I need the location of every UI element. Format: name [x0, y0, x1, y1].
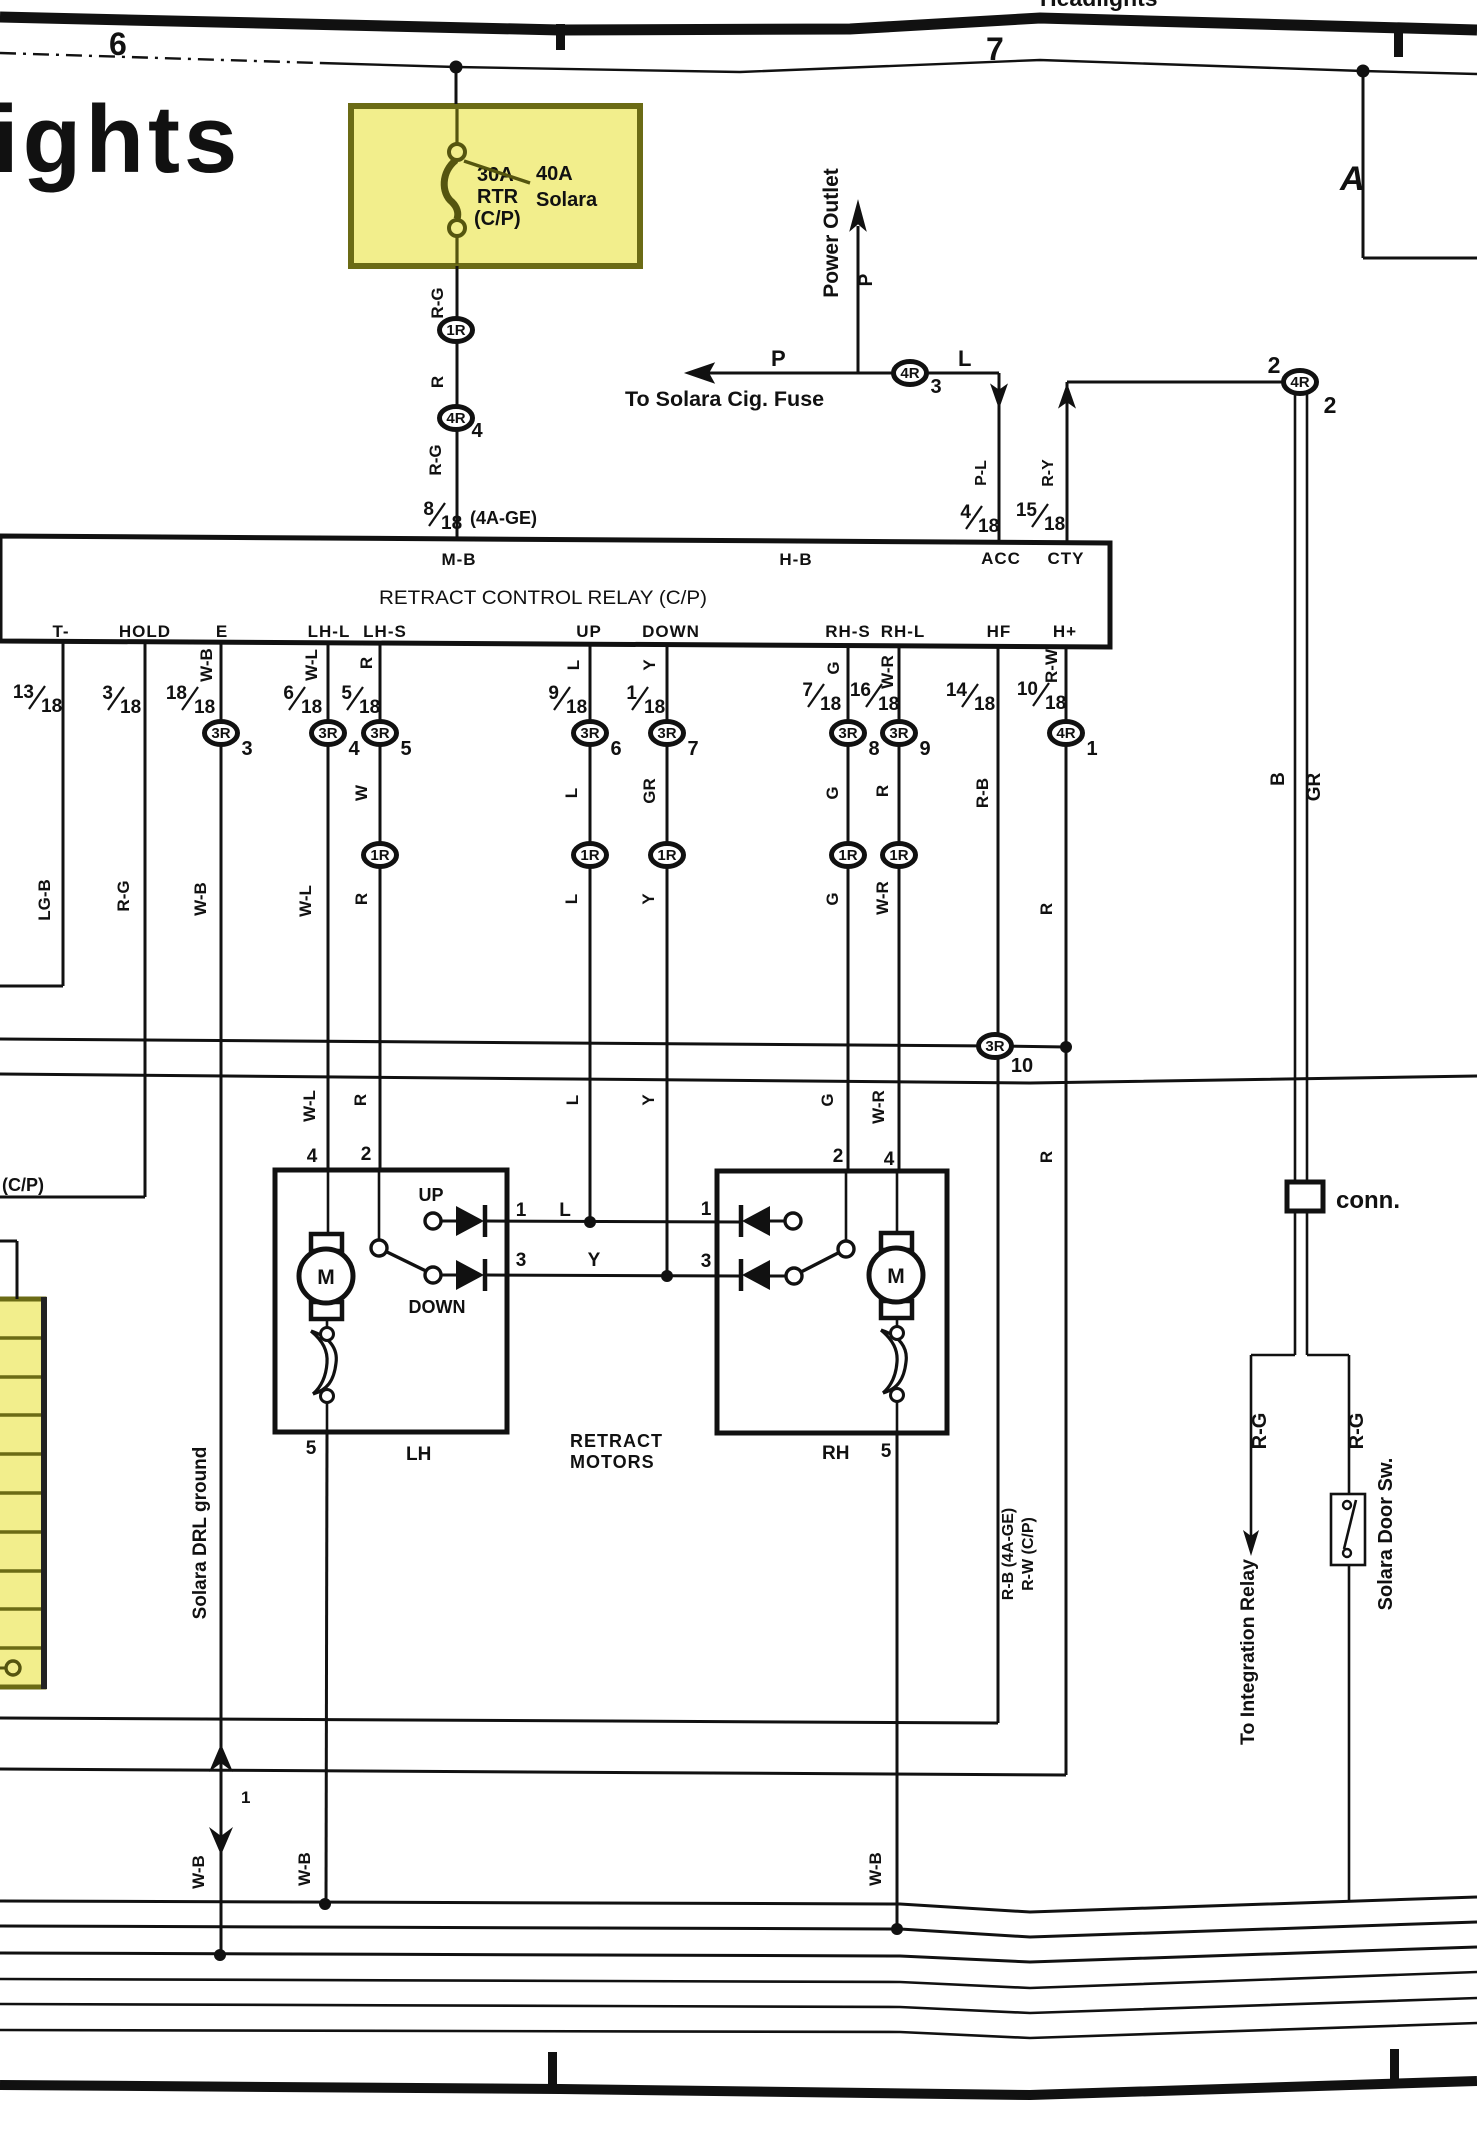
svg-text:DOWN: DOWN	[642, 622, 700, 641]
svg-text:1: 1	[701, 1199, 712, 1220]
svg-text:L: L	[562, 788, 581, 798]
svg-text:P: P	[771, 346, 786, 371]
svg-text:Y: Y	[588, 1250, 601, 1271]
svg-text:L: L	[559, 1200, 571, 1221]
wire W-L from LH-L	[327, 643, 330, 1172]
off-page arrow down (1)	[209, 1827, 233, 1855]
svg-text:W-R: W-R	[878, 655, 897, 689]
svg-text:RH: RH	[822, 1443, 849, 1464]
svg-text:(C/P): (C/P)	[474, 208, 521, 230]
svg-text:1R: 1R	[838, 847, 857, 864]
motor M (LH)	[299, 1234, 353, 1319]
wire R from LH-S	[379, 643, 382, 1172]
connector conn.	[1287, 1182, 1323, 1211]
svg-text:Power Outlet: Power Outlet	[820, 168, 843, 298]
wire Y from DOWN	[666, 643, 669, 1276]
svg-text:1: 1	[1086, 738, 1097, 760]
svg-text:4R: 4R	[900, 365, 919, 382]
node: fuse feed junction	[450, 61, 463, 74]
svg-text:9: 9	[919, 738, 930, 760]
connector 1R	[364, 844, 397, 867]
wire motor lead (LH pin4)	[327, 1172, 330, 1234]
svg-text:M: M	[317, 1266, 335, 1289]
svg-text:R-G: R-G	[1346, 1413, 1368, 1450]
svg-text:(C/P): (C/P)	[2, 1175, 44, 1195]
wire: ground bus 1	[0, 1897, 1477, 1912]
connector 3R	[883, 722, 931, 761]
ground terminal	[0, 1667, 6, 1670]
wire: H+ return bus	[0, 1769, 1066, 1775]
svg-text:4R: 4R	[1290, 374, 1309, 391]
svg-text:Y: Y	[640, 659, 659, 671]
svg-text:Y: Y	[639, 1094, 658, 1106]
svg-text:LH: LH	[406, 1444, 431, 1465]
connector 3R	[364, 722, 412, 761]
svg-text:R: R	[873, 785, 892, 797]
svg-text:W-L: W-L	[296, 885, 315, 917]
svg-text:R-G: R-G	[114, 880, 133, 911]
svg-text:6: 6	[610, 738, 621, 760]
svg-text:5: 5	[306, 1438, 317, 1459]
svg-text:7: 7	[687, 738, 698, 760]
svg-text:8: 8	[423, 499, 434, 520]
svg-text:2: 2	[1268, 352, 1281, 378]
wire split to relay / door switch	[1251, 1354, 1295, 1357]
connector 1R	[574, 844, 607, 867]
node: RH W-B to bus	[891, 1923, 903, 1935]
svg-text:G: G	[818, 1093, 837, 1106]
svg-text:6: 6	[283, 683, 294, 704]
wire motor lead (RH pin4)	[896, 1171, 899, 1233]
wire: lower crossing bus	[0, 1074, 1477, 1083]
svg-text:W-L: W-L	[300, 1090, 319, 1122]
connector 4R	[1284, 371, 1317, 394]
svg-text:G: G	[823, 786, 842, 799]
wire: HF return bus	[0, 1718, 998, 1723]
svg-text:RH-L: RH-L	[881, 622, 926, 641]
svg-text:3R: 3R	[889, 725, 908, 742]
svg-text:P-L: P-L	[973, 460, 990, 486]
svg-text:18: 18	[566, 697, 587, 718]
node: circuit A junction	[1357, 65, 1370, 78]
svg-text:13: 13	[13, 682, 34, 703]
svg-text:L: L	[563, 1095, 582, 1105]
svg-text:LG-B: LG-B	[35, 879, 54, 921]
svg-text:4: 4	[348, 738, 360, 760]
wire LH pin5 W-B	[326, 1402, 329, 1432]
svg-text:R-W (C/P): R-W (C/P)	[1020, 1517, 1037, 1591]
node: UP wire to L row	[584, 1216, 596, 1228]
svg-text:5: 5	[400, 738, 411, 760]
svg-text:3: 3	[516, 1250, 527, 1271]
svg-text:18: 18	[878, 694, 899, 715]
svg-text:W-B: W-B	[866, 1852, 885, 1886]
wire Y (motor row 3)	[486, 1275, 741, 1276]
svg-text:W-B: W-B	[295, 1852, 314, 1886]
svg-text:G: G	[823, 892, 842, 905]
svg-text:R-G: R-G	[1249, 1413, 1271, 1450]
connector 3R	[574, 722, 622, 761]
svg-text:18: 18	[820, 694, 841, 715]
wire: power outlet branch	[857, 226, 860, 373]
wire L (motor row 1)	[486, 1221, 741, 1222]
svg-text:Headlights: Headlights	[1040, 0, 1158, 11]
fuse RTR 30A/40A (highlighted)	[351, 106, 640, 266]
svg-text:G: G	[824, 661, 843, 674]
svg-text:R-W: R-W	[1042, 648, 1061, 683]
svg-text:3: 3	[930, 376, 941, 398]
svg-text:5: 5	[341, 683, 352, 704]
svg-text:1R: 1R	[580, 847, 599, 864]
wire: ground bus 5	[0, 1998, 1477, 2013]
svg-text:P: P	[856, 273, 877, 286]
connector 4R	[894, 362, 942, 399]
svg-text:18: 18	[644, 697, 665, 718]
Solara door switch	[1331, 1494, 1365, 1565]
wire: 3R-10 bus	[0, 1039, 1066, 1047]
svg-text:18: 18	[301, 697, 322, 718]
svg-text:18: 18	[166, 683, 187, 704]
diode up (RH)	[739, 1205, 744, 1237]
svg-text:1: 1	[516, 1200, 527, 1221]
svg-text:R: R	[1037, 1151, 1056, 1163]
LH retract motor box	[275, 1170, 507, 1432]
svg-text:CTY: CTY	[1048, 549, 1085, 568]
wire LG-B from T-	[62, 643, 65, 986]
diode up (LH)	[441, 1220, 456, 1223]
svg-text:3R: 3R	[838, 725, 857, 742]
wire: P to Solara cig fuse	[700, 372, 999, 375]
node: LH W-B to bus	[319, 1898, 331, 1910]
diode down (RH)	[739, 1259, 744, 1291]
svg-text:14: 14	[946, 680, 968, 701]
off-page arrow up (1)	[209, 1744, 233, 1772]
svg-text:DOWN: DOWN	[409, 1297, 466, 1317]
svg-text:Solara Door Sw.: Solara Door Sw.	[1375, 1458, 1397, 1611]
svg-text:4R: 4R	[446, 410, 465, 427]
svg-text:40A: 40A	[536, 163, 573, 185]
svg-text:18: 18	[41, 696, 62, 717]
svg-text:R-B (4A-GE): R-B (4A-GE)	[1000, 1508, 1017, 1600]
connector 4R	[1050, 722, 1098, 761]
svg-text:A: A	[1339, 160, 1365, 198]
connector 1R	[651, 844, 684, 867]
wire B (double line left)	[1294, 393, 1297, 1355]
svg-text:1R: 1R	[657, 847, 676, 864]
svg-text:R-G: R-G	[428, 287, 447, 318]
switch (LH)	[378, 1172, 381, 1240]
svg-text:R-G: R-G	[426, 444, 445, 475]
svg-text:W-B: W-B	[189, 1855, 208, 1889]
connector 3R	[312, 722, 361, 761]
wire R-G to door switch	[1348, 1355, 1351, 1494]
svg-text:RETRACT: RETRACT	[570, 1431, 663, 1451]
svg-text:UP: UP	[418, 1185, 443, 1205]
svg-text:B: B	[1268, 772, 1289, 786]
svg-text:W-R: W-R	[869, 1090, 888, 1124]
RH retract motor box	[717, 1171, 947, 1433]
svg-text:L: L	[958, 346, 971, 371]
connector 3R	[832, 722, 880, 761]
svg-text:18: 18	[441, 513, 462, 534]
switch (RH)	[845, 1171, 848, 1241]
svg-text:R: R	[351, 1094, 370, 1106]
svg-text:H-B: H-B	[779, 550, 812, 569]
svg-text:MOTORS: MOTORS	[570, 1452, 655, 1472]
svg-text:4: 4	[307, 1146, 318, 1167]
svg-text:R-Y: R-Y	[1040, 459, 1057, 487]
connector 4R	[440, 407, 484, 443]
svg-text:18: 18	[978, 516, 999, 537]
svg-text:HF: HF	[987, 622, 1012, 641]
svg-text:18: 18	[194, 697, 215, 718]
wire P-L to relay ACC	[998, 373, 1001, 542]
svg-text:18: 18	[1044, 514, 1065, 535]
svg-text:W-B: W-B	[197, 648, 216, 682]
svg-text:3R: 3R	[370, 725, 389, 742]
svg-text:R: R	[428, 376, 447, 388]
svg-text:To Integration Relay: To Integration Relay	[1237, 1559, 1259, 1745]
connector 3R	[205, 722, 253, 761]
wire RH pin5 W-B	[896, 1401, 899, 1433]
svg-text:18: 18	[1045, 693, 1066, 714]
svg-text:3R: 3R	[318, 725, 337, 742]
svg-text:M: M	[887, 1265, 905, 1288]
connector 1R	[832, 844, 865, 867]
svg-text:W-B: W-B	[191, 882, 210, 916]
svg-text:R: R	[1037, 903, 1056, 915]
svg-text:3R: 3R	[211, 725, 230, 742]
wire R-Y to relay CTY	[1066, 382, 1069, 542]
wire: section bus (dash-dot)	[0, 53, 320, 63]
circuit breaker (RH)	[896, 1318, 899, 1327]
svg-text:W-L: W-L	[302, 649, 321, 681]
diode down (LH)	[441, 1274, 456, 1277]
svg-text:W-R: W-R	[873, 881, 892, 915]
svg-text:3R: 3R	[657, 725, 676, 742]
svg-text:3R: 3R	[580, 725, 599, 742]
svg-text:(4A-GE): (4A-GE)	[470, 508, 537, 528]
wire G from RH-S	[847, 645, 850, 1172]
wire L from UP	[589, 643, 592, 1222]
wire W-R from RH-L	[898, 645, 901, 1172]
svg-text:M-B: M-B	[441, 550, 476, 569]
svg-text:W: W	[352, 784, 371, 801]
node: E wire to ground bus	[214, 1949, 226, 1961]
wire: ground bus 3	[0, 1947, 1477, 1962]
node: DOWN wire to Y row	[661, 1270, 673, 1282]
wire R-G from HOLD	[144, 643, 147, 1197]
wire door switch to bus	[1348, 1565, 1351, 1902]
svg-text:ights: ights	[0, 86, 241, 193]
svg-text:1: 1	[241, 1788, 250, 1807]
svg-text:RTR: RTR	[477, 186, 519, 208]
connector 1R	[440, 319, 473, 342]
svg-text:18: 18	[120, 697, 141, 718]
wire: ground bus 6	[0, 2023, 1477, 2038]
svg-text:18: 18	[974, 694, 995, 715]
svg-text:8: 8	[868, 738, 879, 760]
svg-text:1: 1	[626, 683, 637, 704]
svg-text:T-: T-	[52, 622, 69, 641]
connector 1R	[883, 844, 916, 867]
svg-text:To Solara Cig. Fuse: To Solara Cig. Fuse	[625, 387, 824, 411]
motor M (RH)	[869, 1233, 923, 1318]
svg-text:Y: Y	[639, 893, 658, 905]
wire: ground bus 2	[0, 1922, 1477, 1937]
svg-text:Solara DRL ground: Solara DRL ground	[190, 1447, 211, 1620]
svg-text:conn.: conn.	[1336, 1187, 1400, 1214]
svg-text:5: 5	[881, 1441, 892, 1462]
svg-text:3R: 3R	[985, 1038, 1004, 1055]
svg-text:15: 15	[1016, 500, 1038, 521]
svg-text:L: L	[562, 894, 581, 904]
svg-text:18: 18	[359, 697, 380, 718]
svg-text:RETRACT CONTROL RELAY (C/P): RETRACT CONTROL RELAY (C/P)	[379, 588, 707, 609]
svg-text:ACC: ACC	[981, 549, 1021, 568]
connector strip (highlighted)	[0, 1297, 44, 1689]
wire: section bus	[320, 60, 1477, 74]
svg-text:3: 3	[102, 683, 113, 704]
svg-text:1R: 1R	[889, 847, 908, 864]
svg-text:E: E	[216, 622, 228, 641]
svg-text:H+: H+	[1053, 622, 1077, 641]
svg-text:9: 9	[548, 683, 559, 704]
wire into connector strip	[0, 1240, 17, 1243]
svg-text:4: 4	[884, 1149, 895, 1170]
svg-text:7: 7	[802, 680, 813, 701]
wire R-W / R from H+	[1065, 647, 1068, 1775]
svg-text:R: R	[357, 657, 376, 669]
wire R-G fuse to relay M-B	[455, 73, 458, 104]
svg-text:16: 16	[850, 680, 871, 701]
svg-text:4: 4	[960, 502, 971, 523]
connector 3R	[651, 722, 699, 761]
svg-text:HOLD: HOLD	[119, 622, 171, 641]
svg-text:LH-L: LH-L	[308, 622, 351, 641]
wire R-B from HF	[997, 647, 1000, 1723]
svg-text:4R: 4R	[1056, 725, 1075, 742]
relay: RETRACT CONTROL RELAY (C/P)	[0, 536, 1110, 647]
svg-text:R-B: R-B	[973, 778, 992, 808]
svg-text:Solara: Solara	[536, 189, 598, 211]
wire: ground bus 4	[0, 1972, 1477, 1988]
svg-text:4: 4	[471, 420, 483, 442]
wire GR (double line right)	[1306, 393, 1309, 1355]
svg-text:2: 2	[833, 1146, 844, 1167]
svg-text:10: 10	[1017, 679, 1038, 700]
connector 3R	[979, 1035, 1034, 1078]
svg-text:2: 2	[1324, 392, 1337, 418]
wire W-B from E (Solara DRL ground)	[220, 643, 223, 1957]
circuit breaker (LH)	[326, 1319, 329, 1328]
svg-text:R: R	[352, 893, 371, 905]
svg-text:3: 3	[241, 738, 252, 760]
svg-text:3: 3	[701, 1251, 712, 1272]
node: bus to H+ wire	[1060, 1041, 1072, 1053]
svg-text:1R: 1R	[370, 847, 389, 864]
svg-text:L: L	[564, 660, 583, 670]
svg-text:1R: 1R	[446, 322, 465, 339]
svg-text:2: 2	[361, 1144, 372, 1165]
svg-text:LH-S: LH-S	[363, 622, 407, 641]
svg-text:UP: UP	[576, 622, 602, 641]
wire R-G to integration relay	[1250, 1355, 1253, 1538]
svg-text:GR: GR	[640, 778, 659, 804]
wire to block A	[1362, 71, 1365, 258]
svg-text:GR: GR	[1304, 772, 1325, 801]
svg-text:10: 10	[1011, 1055, 1033, 1077]
svg-text:RH-S: RH-S	[825, 622, 871, 641]
